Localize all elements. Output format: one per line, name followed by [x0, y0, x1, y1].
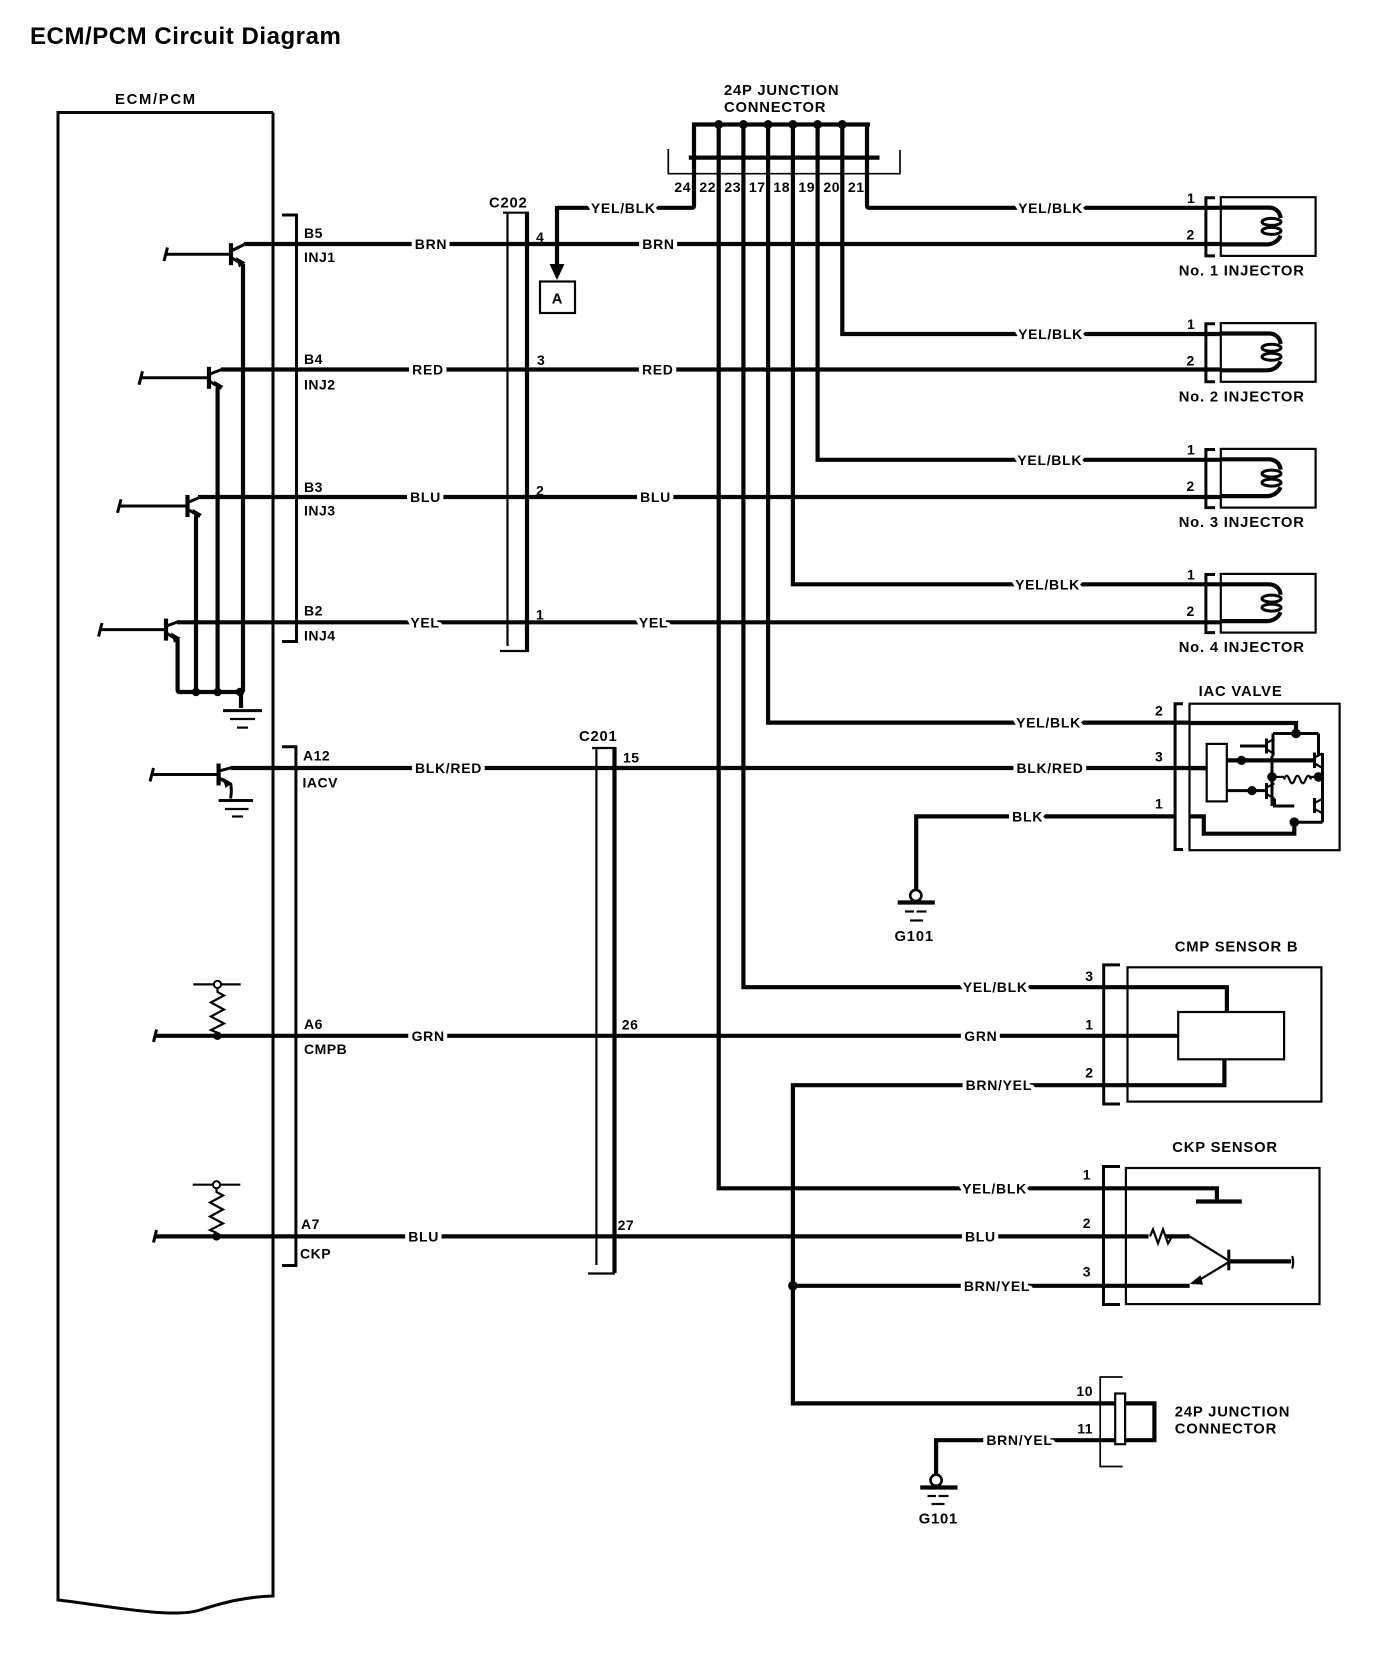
svg-text:C202: C202: [489, 196, 528, 212]
junction dot pin 20: [838, 120, 847, 129]
svg-text:CMPB: CMPB: [304, 1041, 347, 1057]
IAC internal wire pin1 feed: [1190, 816, 1295, 833]
injector No.3: [1179, 442, 1316, 532]
svg-text:YEL/BLK: YEL/BLK: [1018, 200, 1083, 216]
wire A12 BLK/RED (ECM to IAC valve pin 3): [231, 766, 1206, 770]
injector No.1: [1179, 190, 1316, 280]
junction dot: [213, 688, 221, 696]
svg-text:2: 2: [1155, 703, 1163, 719]
transistor Q4 (INJ4 driver): [99, 619, 181, 643]
svg-text:3: 3: [1083, 1264, 1091, 1280]
IAC internal vertical: [1271, 756, 1274, 806]
junction dot BRN/YEL split: [788, 1281, 798, 1291]
svg-text:G101: G101: [895, 929, 934, 945]
injector No.2: [1179, 316, 1316, 406]
IAC valve connector bracket: [1175, 704, 1183, 850]
svg-text:RED: RED: [412, 362, 444, 378]
junction dot pin 23: [739, 120, 748, 129]
CMP sensor box: [1128, 967, 1322, 1101]
svg-text:1: 1: [1187, 190, 1195, 206]
IAC valve box: [1190, 704, 1340, 851]
svg-text:A: A: [552, 292, 564, 308]
IAC transistor right-bottom: [1315, 798, 1323, 813]
IAC solenoid body: [1207, 744, 1227, 802]
svg-text:INJ1: INJ1: [304, 249, 336, 265]
svg-text:CMP SENSOR B: CMP SENSOR B: [1175, 940, 1299, 956]
transistor Q5 (IACV driver): [150, 764, 233, 789]
svg-text:22: 22: [699, 179, 716, 195]
wire BRN/YEL to CKP pin 3: [793, 1284, 1190, 1288]
IAC transistor right-top: [1315, 753, 1323, 769]
svg-text:YEL/BLK: YEL/BLK: [1018, 326, 1083, 342]
svg-text:1: 1: [536, 607, 544, 623]
CKP coil diagonal lower: [1193, 1262, 1228, 1283]
svg-text:CONNECTOR: CONNECTOR: [1175, 1422, 1277, 1438]
IAC internal wire solenoid lower: [1227, 789, 1252, 792]
wire Q4 emitter to ground bus: [178, 639, 180, 692]
svg-text:27: 27: [618, 1217, 635, 1233]
svg-text:26: 26: [622, 1017, 639, 1033]
jumper loop pins 10-11: [1125, 1403, 1154, 1440]
svg-text:B5: B5: [304, 225, 323, 241]
wire to A reference: [555, 206, 559, 266]
svg-text:1: 1: [1085, 1017, 1093, 1033]
svg-text:15: 15: [623, 750, 640, 766]
wire ground bus: [178, 690, 243, 694]
ground G101 (bottom): [920, 1475, 957, 1504]
svg-text:YEL/BLK: YEL/BLK: [1015, 576, 1080, 592]
svg-text:A6: A6: [304, 1016, 323, 1032]
wire Q1 emitter: [241, 264, 245, 692]
svg-text:2: 2: [1187, 227, 1195, 243]
connector bracket B-row: [282, 215, 297, 642]
IAC coil winding: [1272, 776, 1284, 778]
junction dot: [1267, 772, 1277, 782]
svg-text:BLU: BLU: [408, 1228, 439, 1244]
svg-text:IAC VALVE: IAC VALVE: [1199, 684, 1283, 700]
IAC transistor upper: [1240, 739, 1275, 754]
svg-text:ECM/PCM: ECM/PCM: [115, 92, 197, 108]
IAC right rail: [1321, 753, 1324, 822]
svg-text:CKP: CKP: [300, 1246, 331, 1262]
svg-text:2: 2: [1083, 1215, 1091, 1231]
wire A6 GRN (ECM to CMP sensor pin 1): [155, 1034, 1178, 1038]
svg-text:YEL/BLK: YEL/BLK: [591, 200, 656, 216]
connector C202: [500, 213, 529, 652]
svg-text:24P JUNCTION: 24P JUNCTION: [724, 83, 839, 99]
svg-text:BLK: BLK: [1012, 808, 1043, 824]
wire pin 19 YEL/BLK to No.3 injector pin 1: [818, 158, 1221, 460]
reference box A: [540, 282, 575, 314]
CKP pickup wire: [1166, 1234, 1190, 1238]
svg-text:INJ4: INJ4: [304, 628, 336, 644]
wire A7 BLU (ECM to CKP sensor pin 2): [155, 1234, 1149, 1238]
wire Q2 emitter: [216, 388, 220, 692]
junction dot pin 18: [788, 120, 797, 129]
transistor Q2 (INJ2 driver): [139, 367, 224, 391]
IAC internal wire pin2 feed: [1190, 723, 1297, 733]
wire pin 18 YEL/BLK to No.4 injector pin 1: [793, 158, 1221, 585]
svg-text:INJ3: INJ3: [304, 503, 336, 519]
arrowhead CKP: [1190, 1275, 1203, 1285]
wire B4 RED (ECM to No.2 injector pin 2): [221, 367, 1221, 371]
CKP output wire: [1229, 1259, 1291, 1263]
svg-text:3: 3: [1155, 749, 1163, 765]
junction dot: [1290, 817, 1300, 827]
wire CMP pin2 BRN/YEL branch: [793, 1059, 1225, 1403]
24P junction connector pin block: [1115, 1394, 1125, 1445]
resistor R2 (CKP pull-up): [193, 1181, 241, 1233]
junction dot: [1237, 756, 1246, 765]
svg-text:BLU: BLU: [640, 489, 671, 505]
svg-text:B3: B3: [304, 479, 323, 495]
svg-text:No. 4 INJECTOR: No. 4 INJECTOR: [1179, 640, 1305, 656]
svg-text:1: 1: [1187, 442, 1195, 458]
ground (IACV driver): [219, 783, 253, 817]
svg-text:BLU: BLU: [965, 1228, 996, 1244]
CKP output tick: [1292, 1256, 1293, 1269]
svg-text:YEL/BLK: YEL/BLK: [1016, 715, 1081, 731]
IAC transistor lower: [1252, 783, 1275, 799]
svg-text:GRN: GRN: [964, 1028, 997, 1044]
svg-text:RED: RED: [642, 362, 674, 378]
svg-text:No. 2 INJECTOR: No. 2 INJECTOR: [1179, 389, 1305, 405]
wire pin 22 YEL/BLK to CKP sensor pin 1: [719, 158, 1217, 1200]
svg-text:23: 23: [724, 179, 741, 195]
svg-text:No. 1 INJECTOR: No. 1 INJECTOR: [1179, 264, 1305, 280]
junction dot R2 to A7 wire: [212, 1232, 220, 1240]
connector bracket A-row: [282, 747, 296, 1266]
svg-text:CONNECTOR: CONNECTOR: [724, 100, 826, 116]
24P junction connector (bottom) bracket: [1100, 1377, 1122, 1467]
CKP coil diagonal upper: [1190, 1236, 1229, 1260]
ground (injector drivers): [223, 692, 262, 728]
junction dot pin 17: [764, 120, 773, 129]
svg-text:2: 2: [1187, 603, 1195, 619]
svg-text:IACV: IACV: [303, 775, 339, 791]
IAC internal wire pin3 feed: [1190, 767, 1207, 770]
wire B3 BLU (ECM to No.3 injector pin 2): [198, 495, 1221, 499]
CKP sensor box: [1126, 1168, 1320, 1304]
svg-text:INJ2: INJ2: [304, 377, 336, 393]
svg-text:BRN/YEL: BRN/YEL: [966, 1077, 1032, 1093]
junction dot: [236, 688, 244, 696]
wire B2 YEL (ECM to No.4 injector pin 2): [177, 620, 1221, 624]
svg-text:BRN/YEL: BRN/YEL: [964, 1278, 1030, 1294]
svg-text:4: 4: [536, 229, 544, 245]
transistor Q1 (INJ1 driver): [164, 243, 246, 267]
svg-text:G101: G101: [919, 1512, 958, 1528]
svg-text:11: 11: [1077, 1420, 1093, 1436]
svg-text:21: 21: [848, 179, 865, 195]
svg-text:1: 1: [1155, 796, 1163, 812]
IAC internal mid rail: [1227, 758, 1315, 762]
svg-text:24P JUNCTION: 24P JUNCTION: [1175, 1405, 1290, 1421]
CKP core bar: [1227, 1250, 1230, 1271]
tick A6 wire start: [154, 1030, 157, 1043]
svg-text:B4: B4: [304, 351, 323, 367]
svg-text:3: 3: [1085, 968, 1093, 984]
CMP sensor connector bracket: [1104, 965, 1120, 1104]
svg-text:A12: A12: [303, 748, 330, 764]
svg-text:18: 18: [773, 179, 790, 195]
junction dot R1 to A6 wire: [213, 1032, 221, 1040]
wire pin 23 YEL/BLK to CMP sensor pin 3: [743, 158, 1227, 1012]
CKP pickup resistor: [1150, 1229, 1172, 1243]
junction dot pin 19: [813, 120, 822, 129]
connector outline bracket: [668, 149, 900, 174]
wire pin 24 YEL/BLK to sheet A: [557, 158, 694, 208]
svg-text:CKP SENSOR: CKP SENSOR: [1172, 1140, 1278, 1156]
ECM/PCM box U1: [58, 113, 273, 1614]
svg-text:2: 2: [1187, 478, 1195, 494]
resistor R1 (CMPB pull-up): [193, 981, 240, 1033]
svg-text:BLU: BLU: [410, 489, 441, 505]
wire Q3 emitter: [194, 516, 198, 692]
transistor Q3 (INJ3 driver): [118, 495, 203, 519]
tick A7 wire start: [154, 1230, 157, 1243]
injector No.4: [1179, 567, 1316, 657]
svg-text:C201: C201: [579, 729, 618, 745]
IAC upper loop: [1273, 732, 1319, 735]
ground G101 (IAC): [898, 890, 935, 921]
svg-text:BLK/RED: BLK/RED: [1016, 760, 1083, 776]
svg-text:A7: A7: [301, 1216, 320, 1232]
svg-text:10: 10: [1076, 1383, 1093, 1399]
svg-text:B2: B2: [304, 603, 323, 619]
CKP shield bar: [1196, 1199, 1242, 1203]
arrowhead: [550, 264, 565, 280]
svg-text:24: 24: [674, 179, 691, 195]
svg-text:YEL/BLK: YEL/BLK: [1017, 452, 1082, 468]
junction dot pin 22: [714, 120, 723, 129]
connector C201: [588, 748, 617, 1274]
svg-text:2: 2: [1187, 352, 1195, 368]
wire B5 BRN (ECM to No.1 injector pin 2): [244, 242, 1221, 246]
svg-text:3: 3: [537, 352, 545, 368]
wire pin 21 YEL/BLK to No.1 injector pin 1: [867, 158, 1221, 208]
junction dot: [1247, 786, 1256, 795]
svg-text:2: 2: [1085, 1065, 1093, 1081]
svg-text:ECM/PCM Circuit Diagram: ECM/PCM Circuit Diagram: [30, 23, 341, 50]
junction dot: [1291, 729, 1301, 739]
svg-text:BRN: BRN: [415, 236, 447, 252]
CMP sensor element: [1178, 1012, 1284, 1059]
IAC lower loop: [1275, 799, 1295, 806]
svg-text:2: 2: [536, 483, 544, 499]
svg-text:YEL: YEL: [639, 614, 668, 630]
svg-text:19: 19: [798, 179, 815, 195]
svg-text:BRN/YEL: BRN/YEL: [986, 1432, 1052, 1448]
svg-text:20: 20: [823, 179, 840, 195]
junction dot: [1314, 772, 1324, 782]
svg-text:YEL: YEL: [410, 614, 439, 630]
svg-text:GRN: GRN: [412, 1028, 445, 1044]
svg-text:YEL/BLK: YEL/BLK: [963, 979, 1028, 995]
svg-text:BRN: BRN: [642, 236, 674, 252]
svg-text:1: 1: [1187, 316, 1195, 332]
svg-text:YEL/BLK: YEL/BLK: [962, 1180, 1027, 1196]
svg-text:1: 1: [1187, 567, 1195, 583]
wire pin 20 YEL/BLK to No.2 injector pin 1: [842, 158, 1221, 334]
wire BRN/YEL pin 11 to G101: [936, 1440, 1115, 1474]
wire pin 17 YEL/BLK to IAC valve pin 2: [768, 158, 1190, 723]
24P junction connector body (comb): [689, 125, 880, 158]
CKP sensor connector bracket: [1104, 1167, 1121, 1305]
svg-text:1: 1: [1083, 1167, 1091, 1183]
junction dot: [192, 688, 200, 696]
svg-text:BLK/RED: BLK/RED: [415, 760, 482, 776]
wire BLK (IAC pin1 to G101): [916, 814, 1175, 818]
svg-text:17: 17: [749, 179, 766, 195]
svg-text:No. 3 INJECTOR: No. 3 INJECTOR: [1179, 515, 1305, 531]
